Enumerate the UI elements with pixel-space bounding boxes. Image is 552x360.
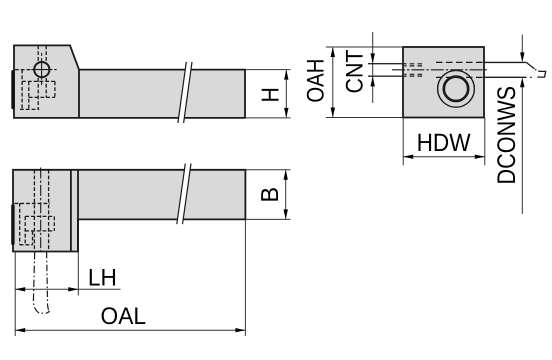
front view hidden slot bottom xyxy=(25,230,54,232)
front view hidden slot left xyxy=(24,216,26,244)
side view hole centerline horizontal xyxy=(27,69,57,71)
side view hidden slot right xyxy=(54,81,56,97)
dimension CNT extension top xyxy=(368,63,406,65)
front view break line right xyxy=(183,164,192,225)
front view hidden screw hole right xyxy=(48,170,50,252)
key path hook right xyxy=(47,252,50,312)
dimension LH/OAL extension left xyxy=(14,252,16,337)
insert tip profile xyxy=(537,71,545,77)
end view block xyxy=(403,47,484,118)
dimension LH line xyxy=(15,288,120,290)
dimension OAH arrow up xyxy=(331,47,335,57)
dimension DCONWS arrow up xyxy=(520,77,524,87)
dimension H extension top xyxy=(246,69,291,71)
end view hidden blade top xyxy=(436,61,484,63)
svg-text:DCONWS: DCONWS xyxy=(493,86,521,185)
blade tip chamfer dotted continuation xyxy=(535,69,540,71)
blade tip top edge xyxy=(484,61,527,63)
dimension CNT arrow up xyxy=(371,76,375,86)
side view break line left xyxy=(178,62,186,123)
dimension LH arrow right xyxy=(68,287,78,291)
side view hole centerline vertical xyxy=(41,53,43,85)
front view clamp plate line xyxy=(70,170,72,252)
dimension H arrow up xyxy=(284,70,288,80)
side view hidden slot top xyxy=(22,80,55,82)
dimension HDW line xyxy=(403,156,485,158)
dimension OAL extension right xyxy=(244,219,246,336)
front view hidden pocket top xyxy=(15,202,51,204)
dimension OAH arrow down xyxy=(331,108,335,118)
front view screw axis centerline xyxy=(40,168,42,252)
dimension H line xyxy=(285,71,287,118)
svg-text:OAH: OAH xyxy=(302,59,329,103)
dimension DCONWS leader top xyxy=(521,35,523,54)
end view screw hole outer circle xyxy=(438,70,475,107)
dimension H extension bottom xyxy=(246,117,291,119)
side view hidden pocket mid xyxy=(28,81,30,109)
dimension B arrow up xyxy=(284,170,288,180)
side view head/shank boundary line xyxy=(78,69,80,118)
front view hidden slot right xyxy=(53,216,55,231)
dimension OAH extension top xyxy=(326,46,403,48)
dimension B extension top xyxy=(246,169,291,171)
dimension DCONWS arrow down xyxy=(520,52,524,62)
dimension LH arrow left xyxy=(15,287,25,291)
front view hidden slot top xyxy=(25,215,54,217)
front view break symbol gap xyxy=(177,164,191,225)
dimension LH extension right xyxy=(77,252,79,296)
dimension B line xyxy=(285,171,287,219)
dimension CNT extension bottom xyxy=(368,75,406,77)
svg-text:H: H xyxy=(258,87,285,102)
dimension H arrow down xyxy=(284,108,288,118)
side view hidden pocket left xyxy=(21,70,23,110)
front view (bottom) body outline xyxy=(13,170,245,252)
side view break symbol gap xyxy=(178,62,192,123)
end view hidden blade bottom xyxy=(436,76,484,78)
svg-text:CNT: CNT xyxy=(342,49,369,93)
side view hidden hole side right xyxy=(45,45,47,97)
side view insert blade (black bar) xyxy=(11,70,15,109)
dimension OAL arrow right xyxy=(235,328,245,332)
side view (top) body outline xyxy=(14,45,245,118)
front view hidden pocket bottom xyxy=(20,244,33,246)
blade tip bottom edge xyxy=(484,76,527,78)
front view hidden pocket left xyxy=(19,203,21,245)
end view hidden screw top pair xyxy=(404,64,423,66)
dimension OAL arrow left xyxy=(15,328,25,332)
dimension DCONWS leader bottom xyxy=(521,87,523,215)
side view hidden shank top line xyxy=(15,69,31,71)
front view insert blade (black bar) xyxy=(11,204,14,245)
end view screw hole inner circle xyxy=(444,77,468,101)
dimension OAH extension bottom xyxy=(326,117,405,119)
front view head/shank boundary line xyxy=(77,170,79,252)
dimension HDW extension left xyxy=(402,118,404,166)
side view hidden hole side left xyxy=(37,45,39,109)
side view clamp screw hole circle xyxy=(34,62,49,77)
front view hidden pocket mid vertical xyxy=(32,231,34,245)
dimension HDW arrow left xyxy=(403,155,413,159)
dimension CNT leader line xyxy=(372,32,374,103)
end view blade centerline xyxy=(392,69,489,71)
end view hidden screw bottom pair xyxy=(404,74,423,76)
side view hidden slot bottom xyxy=(29,96,55,98)
side view break line right xyxy=(184,62,192,123)
svg-text:B: B xyxy=(257,187,284,203)
svg-text:HDW: HDW xyxy=(417,129,471,157)
dimension OAH line xyxy=(332,48,334,117)
key path hook left xyxy=(33,252,49,314)
svg-text:OAL: OAL xyxy=(101,303,147,330)
blade tip chamfer diagonal xyxy=(526,62,534,69)
side view hidden pocket bottom xyxy=(20,108,39,110)
front view hidden screw hole left xyxy=(33,170,35,252)
tip centerline dash xyxy=(530,76,532,78)
dimension HDW arrow right xyxy=(475,155,485,159)
dimension CNT arrow down xyxy=(371,53,375,63)
dimension B extension bottom xyxy=(246,218,291,220)
front view break line left xyxy=(177,164,186,225)
dimension OAL line xyxy=(15,329,245,331)
svg-text:LH: LH xyxy=(88,265,117,292)
dimension B arrow down xyxy=(284,209,288,219)
dimension HDW extension right xyxy=(484,118,486,166)
